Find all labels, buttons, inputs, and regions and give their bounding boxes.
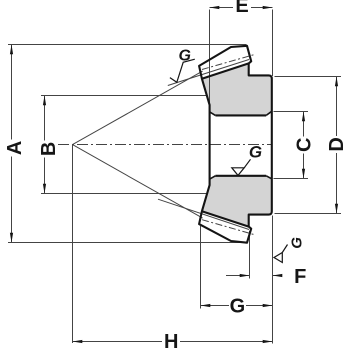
svg-text:C: C <box>293 138 315 152</box>
bore bottom edge <box>215 175 266 177</box>
dimension A line <box>11 45 13 140</box>
arrow D top <box>335 77 338 87</box>
dimension D top extension <box>275 76 342 78</box>
bore chamfer back top <box>266 111 272 115</box>
dimension G left extension <box>200 226 202 309</box>
bore top edge <box>215 114 266 116</box>
svg-text:G: G <box>230 296 246 318</box>
dimension H line <box>73 341 163 343</box>
arrow E left <box>210 6 220 9</box>
tooth root line upper (thin, extends to finish symbol) <box>168 60 249 86</box>
tooth pitch line upper (dash-dot) <box>202 55 254 70</box>
center line (dash-dot) <box>58 144 272 146</box>
dimension B bottom extension <box>41 193 208 195</box>
dimension F left extension <box>249 231 251 279</box>
svg-text:A: A <box>4 141 26 155</box>
svg-text:G: G <box>249 143 262 162</box>
arrow E right <box>263 6 273 9</box>
arrow D bottom <box>335 204 338 214</box>
arrow A top <box>10 45 13 55</box>
finish symbol bore <box>232 159 251 175</box>
svg-text:G: G <box>288 237 305 249</box>
dimension D line <box>336 77 338 137</box>
bore hole (white) <box>210 111 272 179</box>
tooth base line lower (thick) <box>202 211 249 226</box>
tooth base line upper (thick) <box>202 63 249 78</box>
dimension E left extension <box>209 10 211 106</box>
bore chamfer back bottom <box>266 176 272 179</box>
svg-text:D: D <box>326 137 348 151</box>
dimension A bottom extension <box>8 242 247 244</box>
svg-text:H: H <box>164 331 178 350</box>
arrow G left <box>201 304 211 307</box>
arrow B bottom <box>43 184 46 194</box>
arrow G right <box>263 304 273 307</box>
arrow C bottom <box>302 169 305 179</box>
arrow H right <box>263 340 273 343</box>
dimension B top extension <box>41 95 207 97</box>
tooth root line lower (thin) <box>158 199 249 229</box>
svg-text:G: G <box>178 48 190 65</box>
pitch cone line lower <box>73 145 203 219</box>
gear body outline <box>199 46 272 243</box>
svg-text:F: F <box>294 266 306 288</box>
apex extension line down to H <box>72 145 74 343</box>
arrow B top <box>43 96 46 106</box>
arrow H left <box>73 340 83 343</box>
arrow C top <box>302 112 305 122</box>
gear body fill (grey, excludes tooth bands) <box>202 63 272 226</box>
dimension G bottom line <box>201 305 230 307</box>
dimension D bottom extension <box>275 213 342 215</box>
finish symbol tooth flank <box>170 59 195 82</box>
dimension F line left arrow <box>226 275 250 277</box>
finish symbol back face <box>274 245 288 263</box>
bore chamfer front top <box>210 112 216 116</box>
tooth pitch line lower (dash-dot) <box>202 220 254 235</box>
dimension A top extension <box>8 44 247 46</box>
dimension E right extension <box>272 10 274 77</box>
dimension H right extension (shared with F,G) <box>272 216 274 344</box>
dimension C line <box>303 112 305 137</box>
dimension C bottom extension <box>274 178 309 180</box>
dimension B line <box>44 96 46 141</box>
dimension E line <box>210 7 234 9</box>
svg-text:E: E <box>235 0 248 17</box>
arrow A bottom <box>10 233 13 243</box>
bore chamfer front bottom <box>210 176 216 179</box>
dimension F line right arrow <box>273 275 282 277</box>
dimension C top extension <box>274 111 309 113</box>
pitch cone line upper <box>73 71 203 145</box>
svg-text:B: B <box>38 142 60 156</box>
